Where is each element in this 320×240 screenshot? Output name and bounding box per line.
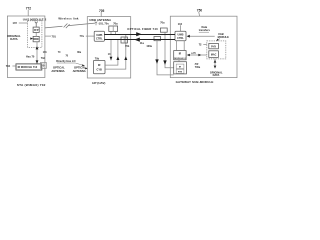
UAS module dashed box [28,21,42,48]
arrowhead E/O up B [124,56,127,60]
wire data transfer arrow [190,35,215,37]
arrowhead MAC to module left [187,54,190,56]
wireless link break marks [64,24,70,29]
svg-text:IR: IR [179,53,182,56]
optical fiber upper line [104,34,175,36]
svg-text:Directly Has LO: Directly Has LO [56,59,75,63]
arrowhead into IR module down [36,60,39,63]
svg-text:-101, 70s: -101, 70s [98,21,110,25]
HAP enclosure rect [87,17,130,78]
svg-text:10: 10 [108,54,111,56]
UAB module dashed box [207,41,226,59]
underline directly has LO [57,63,84,65]
lower sub box [174,62,187,74]
wire fiber to E/O top [110,40,112,61]
STA outer enclosure rect [7,16,45,78]
wires UWB CTRL to W MODULE [177,41,185,51]
svg-text:80a: 80a [77,52,82,54]
box FTN mini [176,69,184,73]
leader 705 [100,12,102,17]
svg-text:UWB ANTENNA: UWB ANTENNA [89,18,111,22]
svg-text:101: 101 [43,52,48,54]
E/O tap box on lower fiber [121,37,127,43]
connector box on lower fiber [154,37,161,41]
wire E/O up to upper fiber [105,34,126,69]
svg-text:UWB: UWB [96,34,102,37]
arrowhead UAB tick [216,39,218,41]
svg-text:IR MODULE 712: IR MODULE 712 [18,65,38,69]
wire FFP to WNC [35,32,37,36]
svg-text:FFP: FFP [34,29,39,32]
svg-text:WNC: WNC [33,38,39,41]
box FFP [33,27,39,32]
wire fiber drop A [157,40,174,75]
svg-text:ANTENNA: ANTENNA [51,69,64,73]
arrowhead lower fiber left [134,38,140,42]
leader 70a antenna [19,22,28,24]
wire MAC original data [214,59,216,68]
svg-text:MODULE 2: MODULE 2 [174,58,186,60]
leader 772 [27,10,29,16]
connector box on upper fiber [160,28,167,32]
svg-text:GATEWAY SUB-MODULE: GATEWAY SUB-MODULE [176,80,214,84]
svg-text:70: 70 [58,52,61,54]
leader 704 [12,65,16,67]
arrowhead E/O up A [116,56,119,60]
underline data transfers [199,31,209,33]
IR module wide box [16,64,42,70]
svg-text:72: 72 [199,42,202,46]
svg-text:transfers: transfers [199,28,211,32]
box IR mini [176,64,184,69]
svg-text:ANTENNA: ANTENNA [73,69,86,73]
arrowhead drop A down [155,59,158,64]
svg-text:FTN: FTN [178,72,183,74]
svg-text:CTRL: CTRL [177,37,184,40]
svg-text:705: 705 [99,9,105,13]
svg-text:704: 704 [6,64,11,68]
svg-text:Has 70: Has 70 [26,55,35,59]
arrowhead original data up [214,60,217,63]
wire node 77a [86,35,94,37]
svg-text:OPTICAL FIBER 740: OPTICAL FIBER 740 [127,27,158,31]
antenna symbol (HAP) [95,22,97,26]
wire WNC down to IR module box [36,42,38,64]
arrowhead original data down [214,66,217,69]
GATEWAY enclosure rect [170,16,237,77]
wireless link line segment 2 [69,23,96,26]
arrowhead optical antenna into rect [85,67,88,69]
svg-text:CTRL: CTRL [96,38,103,41]
svg-text:DATA: DATA [10,37,17,41]
wires junction to fiber [111,31,116,34]
svg-text:UAS MODULE 2: UAS MODULE 2 [23,17,47,21]
box MAC [209,51,219,58]
svg-text:PHY: PHY [211,45,216,48]
svg-text:HP (UAV): HP (UAV) [92,81,105,85]
svg-text:104: 104 [178,23,183,26]
arrowhead drop B down [163,60,166,65]
wire MAC to W MODULE arrow [189,54,207,56]
svg-text:70a: 70a [113,22,118,26]
svg-text:700a: 700a [195,66,201,69]
svg-text:CYB: CYB [97,69,102,72]
svg-text:70d: 70d [41,57,46,60]
arrowhead upper fiber right [136,32,142,36]
arrowhead original data right [30,37,33,39]
svg-text:MODULE: MODULE [218,35,230,39]
svg-text:772: 772 [26,7,32,11]
leader UAB MODULE tick [217,39,220,41]
wire W MODULE to lower box [178,60,180,62]
svg-text:11a: 11a [140,42,145,45]
box UWB CTRL (gateway) [175,31,186,40]
svg-text:STA (WiMAX) 702: STA (WiMAX) 702 [17,83,46,87]
box W MODULE [174,51,186,60]
wire fiber drop B [165,32,174,68]
svg-text:77a: 77a [80,34,85,38]
wire E/O up to lower fiber [105,40,118,66]
arrowhead WNC down [36,46,39,49]
svg-text:70b: 70b [95,57,100,60]
box UWB CTRL (HAP) [94,31,104,41]
arrowhead directly has LO [82,64,85,66]
antenna symbol [35,22,38,28]
svg-text:IR: IR [179,67,182,69]
arrowhead small at dashed box left [198,54,201,56]
svg-text:750: 750 [197,8,203,12]
svg-text:172: 172 [13,21,18,25]
svg-text:70b: 70b [125,45,130,48]
optical fiber lower line [104,39,175,41]
arrowhead into E/O box down [110,57,113,60]
svg-text:70: 70 [66,55,69,57]
svg-text:100a: 100a [146,45,152,48]
box E/O IR CYB [93,60,105,73]
antenna junction box [109,26,118,31]
svg-text:a 70: a 70 [191,53,196,55]
svg-text:DATA: DATA [213,73,220,77]
leader 72 [203,44,207,46]
svg-text:MAC: MAC [211,53,217,56]
wireless link line segment 1 [45,26,63,28]
svg-text:70a: 70a [160,21,165,24]
leader 104 [180,25,182,31]
wire node 701 [45,35,51,37]
svg-text:UWB: UWB [178,33,184,36]
small box at STA edge [41,62,47,68]
leader 750 [198,12,201,16]
arrowhead data transfer left [187,35,190,38]
box PHY [209,43,219,48]
svg-text:IR: IR [98,64,101,67]
box WNC [33,36,39,41]
svg-text:701: 701 [52,34,57,38]
svg-text:Wireless link: Wireless link [58,16,79,20]
